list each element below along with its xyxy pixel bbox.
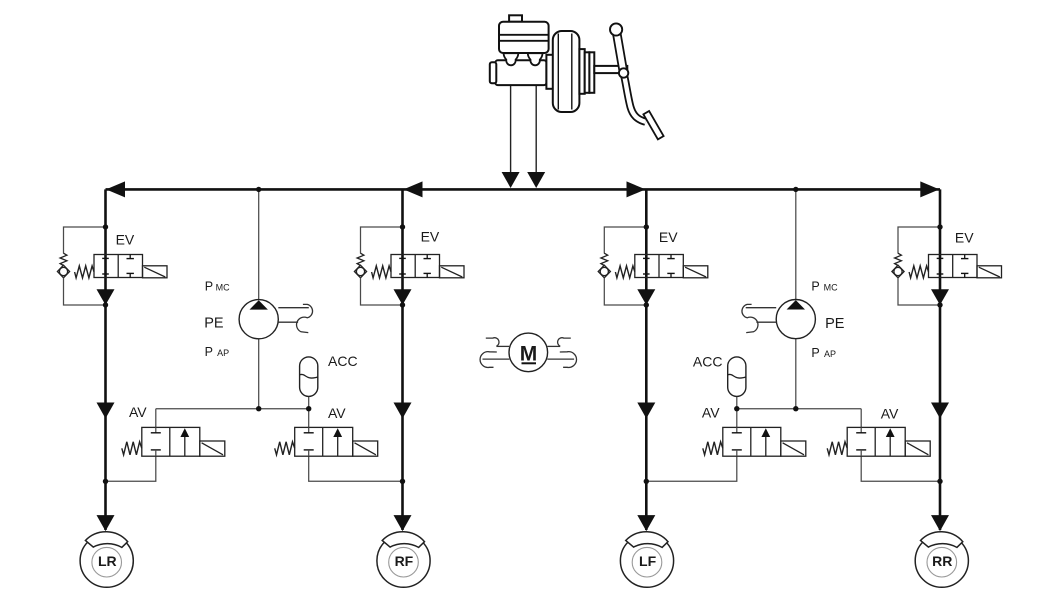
arrow bus to RF xyxy=(404,181,423,197)
node ACC2 xyxy=(734,406,739,411)
reservoir cap xyxy=(509,15,522,21)
svg-text:AV: AV xyxy=(129,404,147,420)
valve AV LR xyxy=(122,427,225,456)
reservoir port right xyxy=(528,53,543,65)
svg-text:AV: AV xyxy=(881,406,899,422)
master cylinder and booster assembly xyxy=(490,15,628,112)
svg-text:PE: PE xyxy=(825,316,845,332)
arrow LR line mid xyxy=(97,403,115,419)
wire pump 2 line xyxy=(795,189,797,408)
reservoir xyxy=(499,22,549,53)
arrow LR line bottom xyxy=(97,515,115,531)
arrow MC outlet 2 xyxy=(527,172,545,188)
wire AV4 return xyxy=(861,456,940,481)
svg-text:AV: AV xyxy=(328,405,346,421)
arrow RF line mid xyxy=(394,403,412,419)
node pump1 suction xyxy=(256,406,261,411)
svg-text:ACC: ACC xyxy=(328,353,358,369)
accumulator ACC group2 xyxy=(728,357,746,397)
wheel RR xyxy=(915,532,968,588)
arrow bus to LR xyxy=(106,181,125,197)
arrow RF line bottom xyxy=(394,515,412,531)
node bus-pump1 xyxy=(256,187,261,192)
arrow LF line mid xyxy=(637,403,655,419)
valve EV RR xyxy=(892,224,1002,307)
reservoir lines xyxy=(499,34,549,36)
wire master cylinder outlet 2 xyxy=(535,85,537,186)
svg-text:P: P xyxy=(205,280,213,294)
svg-text:AP: AP xyxy=(824,349,836,359)
node LR return xyxy=(103,479,108,484)
pedal pivot xyxy=(619,68,628,77)
wheel LF xyxy=(620,532,673,588)
node ACC1 xyxy=(306,406,311,411)
wire LF wheel line xyxy=(645,189,648,530)
svg-text:MC: MC xyxy=(824,283,838,293)
svg-text:M: M xyxy=(520,343,538,366)
svg-text:P: P xyxy=(811,280,819,294)
svg-text:P: P xyxy=(811,346,819,360)
svg-text:AV: AV xyxy=(702,405,720,421)
valve AV RR xyxy=(827,427,930,456)
pump PE group1 xyxy=(239,300,278,339)
valve AV LF xyxy=(703,427,806,456)
wire master cylinder outlet 1 xyxy=(510,85,512,186)
arrow LF line bottom xyxy=(637,515,655,531)
svg-text:MC: MC xyxy=(216,283,230,293)
wire LR wheel line xyxy=(104,189,107,530)
svg-text:EV: EV xyxy=(659,229,678,245)
svg-text:PE: PE xyxy=(204,315,224,331)
svg-text:EV: EV xyxy=(955,230,974,246)
valve EV LF xyxy=(598,224,708,307)
svg-text:RR: RR xyxy=(932,553,952,569)
brake booster xyxy=(553,31,580,112)
svg-text:EV: EV xyxy=(116,232,135,248)
svg-text:P: P xyxy=(205,345,213,359)
node RF return xyxy=(400,479,405,484)
arrow RR line bottom xyxy=(931,515,949,531)
arrow bus to RR xyxy=(920,181,939,197)
node pump2 suction xyxy=(793,406,798,411)
wheel LR xyxy=(80,532,133,588)
accumulator ACC group1 xyxy=(300,357,318,397)
wire AV2 return xyxy=(309,456,403,481)
wire group2 suction bus xyxy=(737,408,861,410)
node bus-pump2 xyxy=(793,187,798,192)
valve EV RF xyxy=(354,224,464,307)
pedal lower arm xyxy=(624,73,646,122)
coupling pump2 xyxy=(742,304,776,332)
wire ACC1-AV2 stub xyxy=(308,396,310,427)
booster discs xyxy=(579,49,584,94)
pump PE group2 xyxy=(776,300,815,339)
wire pump 1 line xyxy=(258,189,260,408)
node LF return xyxy=(644,479,649,484)
wire ACC2-AV3 stub xyxy=(736,396,738,427)
wire AV4 top stub xyxy=(860,409,862,428)
svg-text:EV: EV xyxy=(421,229,440,245)
motor M xyxy=(480,333,576,372)
svg-text:RF: RF xyxy=(395,553,414,569)
pushrod xyxy=(594,66,627,73)
master cylinder body xyxy=(495,60,546,85)
wire group1 suction bus xyxy=(156,408,309,410)
reservoir port left xyxy=(504,53,519,65)
pedal upper arm xyxy=(616,30,624,74)
svg-text:LF: LF xyxy=(639,553,657,569)
pedal pad xyxy=(643,111,663,139)
wire RF wheel line xyxy=(401,189,404,530)
svg-text:ACC: ACC xyxy=(693,354,723,370)
node RR return xyxy=(937,479,942,484)
svg-text:AP: AP xyxy=(217,348,229,358)
wire RR wheel line xyxy=(939,189,942,530)
arrow MC outlet 1 xyxy=(502,172,520,188)
coupling pump1 xyxy=(278,304,312,332)
pedal boss xyxy=(610,23,622,35)
wire AV1 return xyxy=(106,456,156,481)
arrow RR line mid xyxy=(931,403,949,419)
wire main bus xyxy=(106,188,941,191)
valve AV RF xyxy=(275,427,378,456)
wire AV1 top stub xyxy=(155,409,157,428)
wheel RF xyxy=(377,532,430,588)
svg-text:LR: LR xyxy=(98,553,117,569)
body left cap xyxy=(490,62,497,83)
valve EV LR xyxy=(57,224,167,307)
booster flange xyxy=(546,55,553,89)
wire AV3 return xyxy=(646,456,737,481)
arrow bus to LF xyxy=(627,181,646,197)
